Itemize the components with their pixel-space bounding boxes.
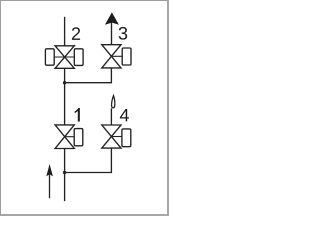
stem V1 to box: [65, 136, 75, 138]
label 4: [120, 109, 129, 121]
valve V1: [55, 125, 74, 149]
actuator box right of V2: [74, 49, 83, 66]
wire: V3 down to tee: [65, 68, 112, 83]
flow arrow head: [46, 164, 53, 176]
pilot flame: [112, 96, 115, 108]
wire: V4 down to tee: [65, 148, 112, 172]
stem V4 to box: [111, 136, 122, 138]
stem V2 to side boxes: [54, 56, 75, 58]
valve V3: [102, 45, 121, 68]
actuator box V1: [74, 129, 83, 146]
valve V2: [55, 46, 74, 69]
wire: main line top stub: [64, 17, 66, 46]
wire: main line below V1: [64, 149, 66, 202]
flow arrow shaft: [49, 175, 51, 199]
junction dot lower: [63, 171, 66, 174]
vent arrow to atmosphere: [105, 12, 119, 24]
actuator box V4: [122, 129, 131, 147]
wire: vent stub: [111, 23, 113, 45]
valve V4: [102, 125, 121, 148]
wire: flame stub: [110, 108, 112, 125]
actuator box left of V2: [45, 49, 54, 65]
actuator box V3: [122, 48, 131, 65]
label 1: [75, 108, 80, 122]
wire: main line between V2 and V1: [64, 68, 66, 125]
junction dot upper: [63, 81, 66, 84]
stem V3 to box: [111, 55, 122, 57]
label 3: [119, 27, 128, 40]
label 2: [72, 27, 80, 40]
